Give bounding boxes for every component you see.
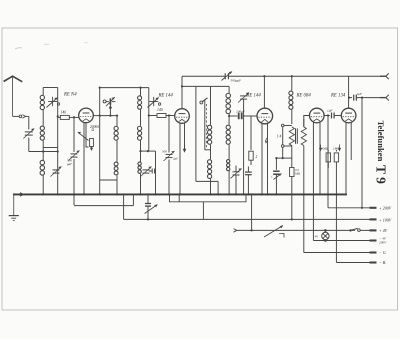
svg-text:2: 2 [256, 155, 258, 159]
capacitor C3 grid 500uuF [67, 151, 80, 166]
resistor R4 [290, 168, 301, 221]
svg-text:+ 4V: + 4V [379, 228, 388, 233]
transformer TR1 primary [289, 127, 294, 167]
svg-text:2μF: 2μF [357, 92, 363, 96]
label U4 RE 084 [296, 93, 312, 98]
grid leak R3 [249, 116, 258, 165]
wire C1 down [28, 138, 30, 152]
wire U-bottom stage1 [43, 147, 58, 149]
tube U3 RE 144 [257, 108, 273, 124]
label U5 RE 134 [330, 93, 346, 98]
wire 2uF line [348, 97, 352, 99]
wire C3 down to bus [73, 159, 75, 205]
resistor R1 140 [60, 115, 78, 119]
wire jog stage2 [100, 116, 117, 180]
capacitor C6 fixed stage2 [149, 169, 156, 174]
wire antenna to C1 [28, 116, 30, 129]
wire top jog stage3 [181, 85, 229, 87]
wire top jog stage1 [43, 87, 58, 89]
wire rail 148 down [148, 88, 150, 151]
label U2 RE 144 [158, 93, 174, 98]
wire C3 up [73, 116, 75, 152]
svg-text:140: 140 [157, 108, 163, 112]
coil L4a [207, 86, 211, 144]
terminal tel2 [380, 95, 389, 101]
svg-text:1:4: 1:4 [277, 135, 282, 139]
line -G [304, 250, 387, 255]
wire 155 down [154, 151, 156, 195]
capacitor C5 tuning stage2 [141, 167, 152, 177]
coil L4b [208, 145, 212, 196]
label R2 140 [157, 108, 163, 112]
svg-text:T 9: T 9 [374, 165, 389, 184]
svg-text:4V: 4V [315, 234, 320, 238]
coil L2b [114, 141, 118, 196]
coil L5a [226, 86, 231, 113]
phone jack J1 [281, 124, 291, 144]
coil L1c [40, 141, 44, 195]
svg-text:200V: 200V [379, 241, 387, 245]
capacitor C12 200uuF grid [229, 110, 256, 120]
capacitor C9 tuning stage3 [231, 166, 242, 196]
resistor R6 grid U5 [333, 145, 341, 263]
antenna [4, 76, 23, 116]
potentiometer P1 20000 ohm [78, 123, 99, 141]
switch SW1 [349, 228, 387, 233]
wire rail 195.9 [195, 86, 197, 181]
svg-text:RE 144: RE 144 [158, 93, 174, 98]
label U3 RE 144 [246, 93, 262, 98]
svg-text:1μF: 1μF [327, 108, 333, 112]
label R1 140 [61, 111, 67, 115]
line +4V [234, 229, 356, 233]
coil L2a [114, 115, 118, 141]
svg-text:RE N4: RE N4 [63, 92, 77, 97]
svg-text:+ 200V: + 200V [379, 206, 392, 211]
svg-text:4MΩ: 4MΩ [322, 147, 329, 151]
line -4V 200V [313, 237, 387, 245]
coil L5b [226, 125, 230, 144]
wire jog stage3 [196, 100, 219, 195]
wire rail stage1 right [42, 88, 59, 196]
wire B+ 362 down [361, 98, 363, 208]
wire U2 cathode arrow [183, 145, 187, 153]
wire C4 to rail [109, 105, 112, 117]
tube U1 RE N4 [79, 108, 94, 123]
svg-text:Telefunken: Telefunken [376, 121, 386, 162]
svg-text:+ 100V: + 100V [379, 218, 392, 223]
wire top line cont [228, 75, 349, 77]
transformer TR1 secondary [301, 119, 306, 253]
capacitor C1 antenna series [23, 129, 34, 139]
wire top jog stage2b [139, 87, 141, 89]
svg-text:− B.: − B. [379, 260, 386, 265]
coil L3b [138, 110, 142, 141]
tube U4 RE 084 [310, 108, 325, 123]
wire U5 plate up [348, 76, 350, 108]
lamp LP1 [315, 229, 330, 242]
svg-text:2μF: 2μF [173, 157, 178, 161]
wire node to L1 bottom [29, 150, 59, 152]
wire jog 151 [139, 150, 155, 152]
label T9 [374, 165, 389, 184]
capacitor C13 1uF [271, 158, 282, 195]
resistor R2 140 [149, 114, 175, 118]
wire L5 mid [228, 114, 230, 125]
svg-text:500: 500 [162, 150, 167, 154]
capacitor C8 series 500uuF [222, 72, 233, 81]
svg-text:μμF: μμF [67, 162, 72, 166]
tube U5 RE 134 [341, 108, 356, 123]
svg-text:RE 144: RE 144 [246, 93, 262, 98]
line -B [336, 260, 386, 265]
label TR1 1to4 [277, 135, 282, 139]
capacitor C14 1uF coupling [327, 108, 341, 118]
label Telefunken [376, 121, 386, 162]
svg-text:− G.: − G. [379, 250, 387, 255]
wire U4 filaments [313, 122, 320, 240]
capacitor C15 2uF [354, 92, 386, 101]
wire U5 filaments [346, 122, 351, 194]
wire T1 filament down [83, 122, 85, 195]
svg-text:RE 084: RE 084 [296, 93, 312, 98]
wire secondary to U4 grid [304, 116, 310, 127]
wire below bus 74 to 133 [74, 194, 133, 205]
wire U4 plate [324, 114, 330, 116]
svg-text:140: 140 [61, 111, 67, 115]
wire y158 link [275, 157, 292, 159]
wire grid feed T1 [58, 116, 61, 118]
label C8 [231, 79, 242, 83]
coil L3a [138, 88, 142, 110]
antenna coupling connector [13, 115, 29, 119]
terminal tel1 [380, 73, 389, 79]
wire C7 down [168, 160, 170, 196]
resistor R5 grid U4 [319, 145, 331, 169]
wire U3 plate up [263, 76, 265, 108]
wire C7 up [168, 114, 170, 152]
tap connector stage3 [200, 98, 208, 149]
svg-text:500μμF: 500μμF [231, 79, 242, 83]
wire U1 plate [93, 115, 100, 117]
coil L5c [227, 145, 231, 196]
capacitor C10 pair stage3 [245, 167, 252, 196]
wire 300 down [0, 0, 1, 1]
rheostat RH1 [264, 226, 284, 238]
wire plate rail down [99, 116, 101, 196]
capacitor C4 coupling [103, 97, 115, 106]
label U1 RE N4 [63, 92, 77, 97]
wire U2 plate top line [182, 76, 225, 108]
tube U2 RE 144 [175, 109, 190, 124]
svg-text:MΩ: MΩ [294, 172, 301, 176]
capacitor C16 blob [145, 193, 158, 220]
svg-text:RE 134: RE 134 [330, 93, 346, 98]
svg-text:1: 1 [271, 175, 273, 179]
wire 123 corner [123, 193, 125, 219]
tap switch S1 [46, 97, 59, 108]
line +200V [328, 206, 392, 211]
wire B+ via 328 [327, 116, 329, 208]
ground bus [13, 193, 347, 197]
choke L6 [289, 75, 293, 124]
wire top line to terminal [349, 75, 386, 77]
capacitor C7 grid stage2 [162, 150, 178, 162]
line +100V [124, 218, 392, 223]
resistor P1 body [86, 139, 93, 151]
coil L1a [40, 88, 44, 110]
capacitor C11 var above grid [238, 93, 249, 196]
wire 252 down [251, 193, 253, 230]
tap switch S2 [148, 97, 161, 108]
wire U2 filament leads [179, 123, 185, 196]
svg-text:Ω: Ω [92, 128, 95, 132]
transformer TR1 core [296, 128, 298, 143]
ground symbol [9, 194, 19, 220]
phone jack J2 [281, 145, 291, 158]
coil L1b [40, 110, 44, 140]
wire loop below bus [170, 193, 247, 219]
coil L3c [138, 141, 142, 196]
wire U3 filaments [261, 124, 269, 196]
capacitor C2 tuning stage1 [51, 167, 62, 177]
scan smudge marks [15, 43, 88, 50]
wire U1 plate rail up [99, 87, 149, 116]
